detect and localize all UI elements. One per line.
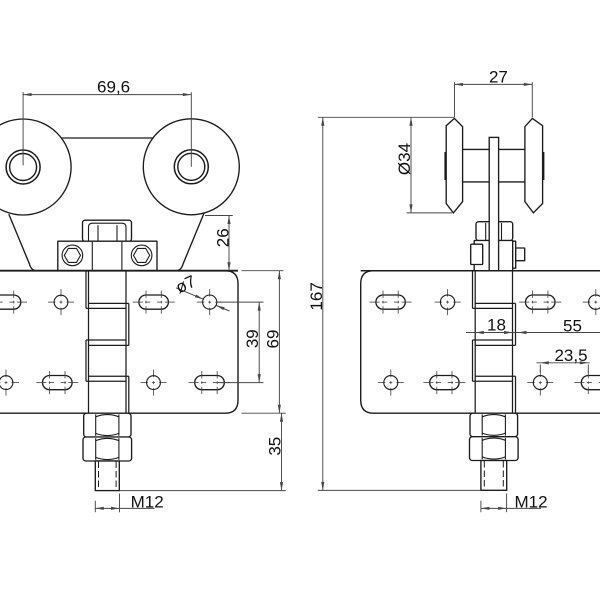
svg-text:69: 69 (263, 330, 282, 349)
svg-text:35: 35 (266, 437, 285, 456)
svg-text:55: 55 (563, 316, 582, 335)
svg-text:18: 18 (487, 316, 506, 335)
svg-text:167: 167 (307, 282, 326, 310)
svg-text:39: 39 (243, 329, 262, 348)
svg-text:69,6: 69,6 (97, 77, 130, 96)
svg-text:M12: M12 (515, 493, 548, 512)
svg-text:23,5: 23,5 (554, 346, 587, 365)
svg-text:M12: M12 (131, 493, 164, 512)
svg-text:26: 26 (214, 228, 233, 247)
svg-text:Ø34: Ø34 (395, 143, 414, 175)
svg-text:27: 27 (489, 67, 508, 86)
